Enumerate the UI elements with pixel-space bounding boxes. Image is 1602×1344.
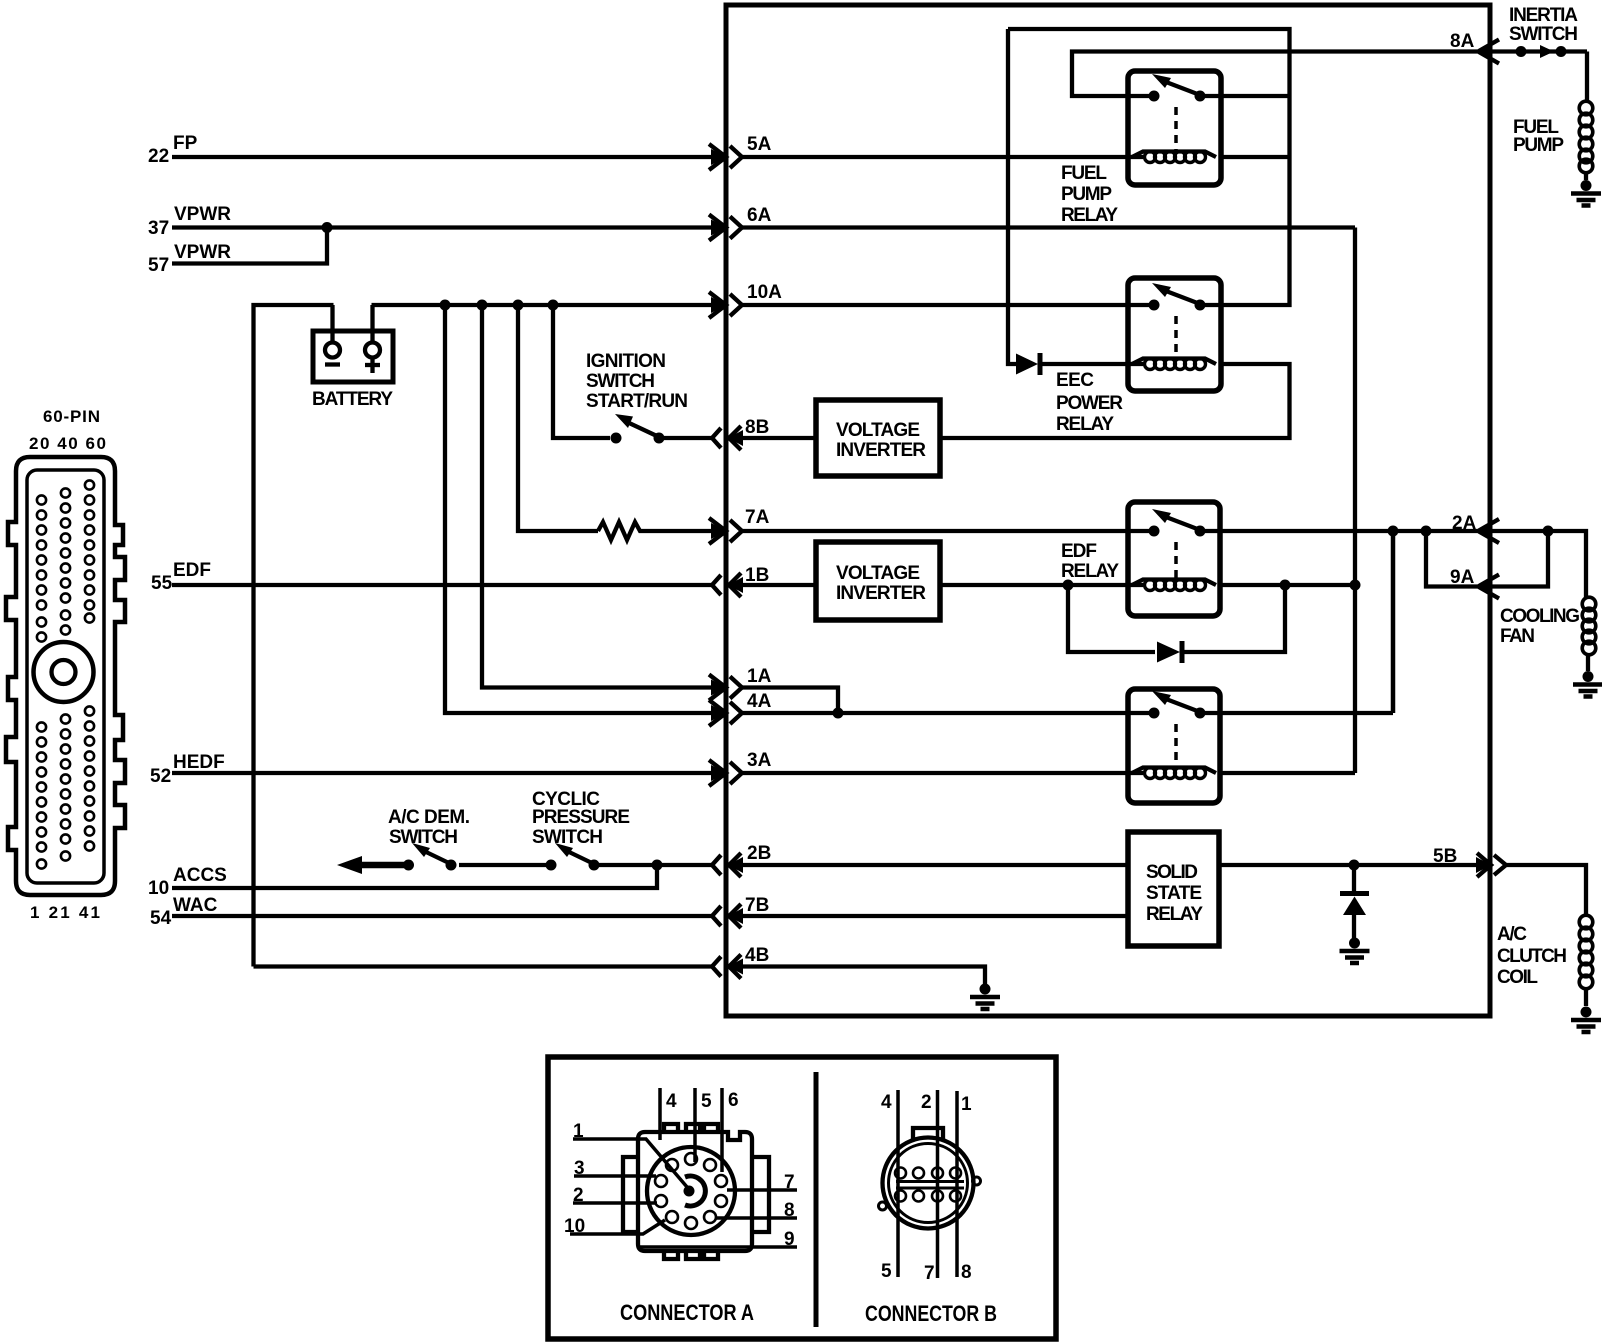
wire fuel pump relay coil return: [1221, 155, 1290, 159]
svg-text:5B: 5B: [1433, 846, 1457, 867]
wire 6A VPWR rail: [742, 225, 1355, 229]
node COOLING FAN label: [1500, 606, 1580, 647]
svg-text:6A: 6A: [747, 205, 772, 226]
wire divider line: [814, 1072, 819, 1327]
wire lead A3: [574, 1174, 656, 1178]
node U2 label: [836, 563, 926, 604]
inductor L1 fuel pump: [1579, 52, 1593, 181]
svg-text:RELAY: RELAY: [1056, 414, 1114, 435]
pin 8B arrow: [712, 426, 743, 450]
wire pin 22 FP to 5A: [172, 155, 713, 159]
wire A/C demand switch row to 2B: [361, 862, 713, 869]
node FUEL PUMP RELAY label: [1061, 163, 1118, 226]
svg-text:VOLTAGE: VOLTAGE: [836, 563, 920, 584]
svg-text:EDF: EDF: [173, 560, 211, 581]
node A/C DEM. SWITCH label: [388, 807, 470, 848]
svg-text:1: 1: [961, 1094, 972, 1115]
svg-text:54: 54: [150, 908, 172, 929]
pin 8A arrow: [1477, 40, 1499, 64]
pin 7A arrow: [709, 518, 742, 544]
svg-text:CONNECTOR B: CONNECTOR B: [865, 1301, 997, 1326]
pin 10A arrow: [709, 292, 742, 318]
svg-text:8A: 8A: [1450, 31, 1475, 52]
svg-text:SWITCH: SWITCH: [389, 827, 458, 848]
junction EDF coil left: [1063, 580, 1074, 591]
junction 2A drop: [1388, 526, 1399, 537]
wire A/C clutch feed: [1505, 865, 1586, 914]
junction 1A/4A tie: [833, 708, 844, 719]
ground G2: [1340, 938, 1370, 964]
wire to resistor: [518, 305, 598, 531]
connector B body: [879, 1128, 981, 1229]
svg-text:10: 10: [148, 878, 169, 899]
wire EDF contact out to 2A: [1200, 529, 1477, 533]
wire drop to relay K4 contact: [1391, 531, 1396, 713]
wire K4 coil return: [1220, 771, 1355, 775]
wire to 4B: [254, 964, 714, 968]
battery B1: [313, 305, 393, 382]
connector J1 pin holes top block: [37, 480, 94, 641]
svg-text:2A: 2A: [1452, 513, 1477, 534]
wire U1 output to EEC relay coil return: [940, 364, 1290, 438]
svg-text:4: 4: [666, 1091, 677, 1112]
wire cooling fan feed: [1492, 531, 1586, 598]
svg-text:EDF: EDF: [1061, 541, 1097, 562]
pin 4B arrow: [712, 955, 743, 979]
junction VPWR tie: [322, 222, 333, 233]
wire lead A1: [573, 1139, 687, 1187]
svg-text:PUMP: PUMP: [1061, 184, 1112, 205]
voltage inverter U1: [816, 400, 940, 476]
junction bus dot 2: [477, 300, 488, 311]
wire 4B to ground stub: [742, 967, 985, 985]
wire 7B to solid state relay: [742, 914, 1128, 918]
wire lead A10: [570, 1220, 665, 1234]
svg-text:VOLTAGE: VOLTAGE: [836, 420, 920, 441]
pin 7B arrow: [712, 904, 743, 928]
wire harness arrow left: [337, 856, 362, 874]
svg-text:FAN: FAN: [1500, 626, 1535, 647]
wire top jumper H1: [1008, 29, 1290, 305]
svg-text:WAC: WAC: [173, 895, 218, 916]
svg-text:FUEL: FUEL: [1061, 163, 1107, 184]
svg-text:8B: 8B: [745, 417, 769, 438]
wire lead A8: [716, 1216, 797, 1220]
svg-text:A/C: A/C: [1497, 924, 1527, 945]
svg-text:10A: 10A: [747, 282, 782, 303]
svg-text:2: 2: [573, 1185, 584, 1206]
wire 7A to EDF relay contact: [742, 529, 1154, 533]
wire 1A inside jog: [742, 688, 838, 714]
wire lead B4/B5: [896, 1090, 900, 1277]
node CYCLIC PRESSURE SWITCH label: [532, 789, 630, 848]
inductor L2 cooling fan: [1582, 597, 1596, 671]
wire lead A4: [658, 1088, 662, 1140]
node SOLID STATE RELAY label: [1146, 862, 1203, 925]
diode CR3 EEC coil: [1016, 353, 1143, 375]
wire EDF coil return: [1220, 583, 1355, 587]
resistor R1: [598, 522, 713, 540]
pin 6A arrow: [709, 215, 742, 241]
connector A pin ring: [655, 1153, 727, 1229]
svg-text:STATE: STATE: [1146, 883, 1202, 904]
wire SSR output to 5B: [1219, 863, 1477, 867]
pin 5B arrow: [1476, 853, 1506, 877]
svg-text:3: 3: [574, 1158, 585, 1179]
svg-text:5: 5: [881, 1261, 892, 1282]
svg-text:START/RUN: START/RUN: [586, 391, 688, 412]
wire lead A7: [727, 1188, 797, 1192]
wire pin 10 ACCS: [172, 865, 657, 888]
wire to 1A: [482, 305, 713, 688]
svg-text:RELAY: RELAY: [1146, 904, 1203, 925]
pin 2B arrow: [712, 853, 743, 877]
svg-text:INERTIA: INERTIA: [1509, 5, 1578, 26]
relay K2 EEC power relay: [1128, 278, 1221, 391]
svg-text:4B: 4B: [745, 945, 769, 966]
svg-text:SWITCH: SWITCH: [1509, 24, 1578, 45]
switch S4 inertia: [1492, 45, 1587, 58]
switch S1 ignition: [611, 414, 713, 444]
ground G3 fuel pump: [1571, 180, 1601, 206]
svg-text:5: 5: [701, 1091, 712, 1112]
svg-text:FP: FP: [173, 133, 198, 154]
svg-text:A/C DEM.: A/C DEM.: [388, 807, 470, 828]
svg-text:INVERTER: INVERTER: [836, 440, 926, 461]
wire pin 54 WAC to 7B: [172, 914, 713, 918]
svg-text:5A: 5A: [747, 134, 772, 155]
switch S3 cyclic pressure: [546, 843, 600, 871]
wire lead A6: [720, 1088, 724, 1172]
pin 2A arrow: [1477, 519, 1499, 543]
wire 1B to voltage inverter U2: [742, 583, 816, 587]
wire EDF flyback loop left: [1068, 585, 1155, 652]
node A/C CLUTCH COIL label: [1497, 924, 1567, 988]
junction bus dot 4: [548, 300, 559, 311]
solid state relay U3: [1128, 832, 1219, 946]
svg-text:60-PIN: 60-PIN: [43, 407, 100, 426]
wire 2B to solid state relay: [742, 863, 1128, 867]
connector A body: [623, 1124, 769, 1259]
svg-text:EEC: EEC: [1056, 370, 1094, 391]
inductor L3 A/C clutch coil: [1579, 915, 1593, 1006]
svg-text:COOLING: COOLING: [1500, 606, 1580, 627]
svg-text:4A: 4A: [747, 691, 772, 712]
wire fuel pump relay contact out: [1200, 94, 1290, 98]
svg-text:BATTERY: BATTERY: [312, 389, 393, 410]
svg-text:POWER: POWER: [1056, 393, 1123, 414]
connector detail box: [548, 1057, 1056, 1339]
svg-text:CLUTCH: CLUTCH: [1497, 946, 1567, 967]
wire lead A5: [693, 1088, 697, 1162]
svg-text:RELAY: RELAY: [1061, 561, 1119, 582]
svg-text:52: 52: [150, 766, 171, 787]
svg-text:10: 10: [564, 1216, 585, 1237]
svg-text:RELAY: RELAY: [1061, 205, 1118, 226]
wire pin 55 EDF to 1B: [172, 583, 713, 587]
svg-text:SOLID: SOLID: [1146, 862, 1198, 883]
svg-text:2: 2: [921, 1092, 932, 1113]
pin 3A arrow: [709, 760, 742, 786]
svg-text:1A: 1A: [747, 666, 772, 687]
wire to 4A: [445, 305, 713, 713]
connector J1 60-pin: [6, 457, 125, 895]
wire 2A/9A outside loop: [1492, 531, 1548, 587]
wire lead B2/B7: [936, 1090, 940, 1278]
wire lead A2: [573, 1201, 657, 1205]
svg-text:VPWR: VPWR: [174, 242, 231, 263]
wire diode feed V2: [1008, 29, 1016, 364]
svg-text:20 40 60: 20 40 60: [29, 434, 106, 453]
svg-text:7: 7: [784, 1172, 795, 1193]
wire pin 37 VPWR to 6A: [172, 225, 713, 229]
junction cooling fan tie: [1543, 526, 1554, 537]
wire battery bus to 10A: [372, 303, 714, 307]
connector J1 pin holes bottom block: [37, 706, 94, 868]
junction bus dot 1: [440, 300, 451, 311]
svg-text:22: 22: [148, 146, 169, 167]
wire EDF flyback loop right: [1182, 585, 1285, 652]
svg-text:6: 6: [728, 1090, 739, 1111]
junction VPWR drop tie: [1350, 580, 1361, 591]
svg-text:9A: 9A: [1450, 567, 1475, 588]
svg-text:PRESSURE: PRESSURE: [532, 807, 630, 828]
wire pin 57 VPWR stub: [172, 228, 327, 264]
wire VPWR drop V3: [1353, 228, 1357, 774]
wire to ignition switch: [553, 305, 610, 438]
connector B pins: [895, 1168, 961, 1202]
svg-text:COIL: COIL: [1497, 967, 1538, 988]
wire 10A to EEC relay contact: [742, 303, 1154, 307]
pin 4A arrow: [709, 700, 742, 726]
junction clamp diode tie: [1349, 860, 1360, 871]
wire 9A inside loop: [1426, 531, 1477, 587]
pin 5A arrow: [709, 144, 742, 170]
wire pin 52 HEDF to 3A: [172, 771, 713, 775]
diode CR1 EDF flyback: [1157, 641, 1182, 663]
svg-text:7A: 7A: [745, 507, 770, 528]
junction flyback/coil return: [1280, 580, 1291, 591]
svg-text:INVERTER: INVERTER: [836, 583, 926, 604]
svg-text:SWITCH: SWITCH: [586, 371, 655, 392]
node INERTIA SWITCH label: [1509, 5, 1578, 45]
relay K1 fuel pump relay: [1128, 71, 1221, 185]
relay K3 EDF relay: [1128, 502, 1220, 616]
voltage inverter U2: [816, 542, 940, 620]
svg-text:ACCS: ACCS: [173, 865, 227, 886]
wire 3A to relay K4 coil: [742, 771, 1143, 775]
svg-text:37: 37: [148, 218, 169, 239]
connector B latch bar: [896, 1182, 964, 1189]
junction 9A drop: [1421, 526, 1432, 537]
junction ACCS tie: [652, 860, 663, 871]
svg-text:8: 8: [961, 1262, 972, 1283]
pin 1A arrow: [709, 675, 742, 701]
diode CR2 clamp: [1340, 865, 1369, 938]
wire lead B1/B8: [955, 1091, 959, 1277]
junction bus dot 3: [513, 300, 524, 311]
node FUEL PUMP label: [1513, 117, 1564, 156]
wire lead A9: [640, 1245, 797, 1249]
node U1 label: [836, 420, 926, 461]
switch S2 A/C demand: [403, 843, 457, 871]
connector J1 keyway circle: [34, 642, 94, 702]
svg-text:4: 4: [881, 1092, 892, 1113]
ground G1: [970, 984, 1000, 1010]
pin 1B arrow: [712, 573, 743, 597]
connector A center key: [684, 1176, 706, 1206]
svg-text:7: 7: [924, 1263, 935, 1284]
svg-text:7B: 7B: [745, 895, 769, 916]
svg-text:9: 9: [784, 1229, 795, 1250]
svg-text:2B: 2B: [747, 843, 771, 864]
wire K4 contact out: [1200, 711, 1393, 715]
svg-text:55: 55: [151, 573, 173, 594]
svg-text:8: 8: [784, 1200, 795, 1221]
svg-text:IGNITION: IGNITION: [586, 351, 666, 372]
pin 9A arrow: [1477, 575, 1499, 599]
node EEC POWER RELAY label: [1056, 370, 1123, 435]
svg-text:PUMP: PUMP: [1513, 135, 1564, 156]
svg-text:VPWR: VPWR: [174, 204, 231, 225]
svg-text:3A: 3A: [747, 750, 772, 771]
svg-text:1: 1: [573, 1121, 584, 1142]
node EDF RELAY label: [1061, 541, 1119, 582]
svg-text:57: 57: [148, 255, 169, 276]
wire 4A to relay K4 contact: [742, 711, 1154, 715]
EEC module main box: [726, 5, 1490, 1016]
ground G4 cooling fan: [1573, 671, 1602, 697]
svg-text:SWITCH: SWITCH: [532, 827, 603, 848]
relay K4 HEDF relay: [1128, 689, 1220, 803]
wire U2 output to EDF coil: [940, 583, 1143, 587]
ground G5 A/C clutch: [1571, 1007, 1601, 1033]
wire 5A to fuel pump relay coil: [742, 155, 1143, 159]
svg-text:HEDF: HEDF: [173, 752, 225, 773]
node IGNITION SWITCH START/RUN label: [586, 351, 688, 412]
svg-text:CONNECTOR A: CONNECTOR A: [620, 1300, 754, 1325]
wire 8B to voltage inverter U1: [742, 436, 816, 440]
wire 8A into fuel pump relay: [1072, 52, 1477, 97]
wire battery minus branch: [254, 305, 334, 967]
